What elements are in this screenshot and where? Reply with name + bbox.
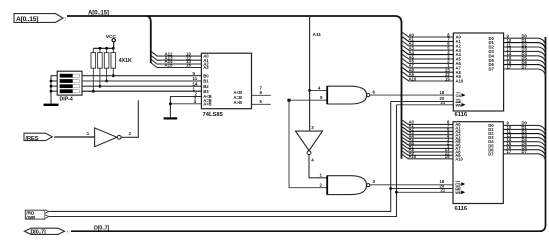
wire A11 from bus [309, 17, 311, 131]
wire D1 U4 to bus [504, 43, 546, 50]
svg-text:6116: 6116 [455, 112, 468, 118]
wire A1 bus to U5 [402, 124, 453, 128]
svg-text::: : [64, 17, 66, 23]
label D5 (U5) [522, 141, 528, 146]
label D0 (U4) [522, 34, 528, 39]
wire bus branch to comparator (A12-A15) [147, 16, 151, 63]
wire DIP common [51, 76, 57, 104]
svg-text:D7: D7 [488, 151, 494, 156]
resistor R3 (pack 4X1K) [104, 48, 109, 81]
wire /RD to U5 OE [391, 188, 453, 190]
label A9 (U5) [409, 151, 415, 156]
label A4 (U4) [409, 50, 415, 55]
label A[0..15] on bus [88, 10, 109, 17]
wire U3B output to U2B pin1 [309, 155, 327, 178]
pin number 13 [186, 59, 191, 64]
svg-text:5: 5 [260, 99, 263, 104]
wire U2A pin5 input [289, 99, 327, 101]
svg-text:3: 3 [373, 179, 376, 184]
label A12 [165, 51, 174, 56]
label D1 (U4) [522, 38, 528, 43]
svg-text:2: 2 [129, 131, 132, 136]
label D3 (U4) [522, 47, 528, 52]
wire B0 net (DIP to U1 pin 9) [82, 75, 201, 77]
pin number 14 (U4) [507, 51, 512, 56]
wire D5 U5 to bus [503, 146, 545, 153]
switch S1 element 3 [60, 84, 80, 88]
pin number 11 [193, 76, 198, 81]
pin number 20 (U4 OE) [440, 96, 445, 101]
label A7 (U5) [409, 144, 415, 149]
pin number 9 (U5) [507, 121, 510, 126]
pin number 4 (U3B out) [311, 158, 314, 163]
label A15 [165, 63, 174, 68]
svg-text:15: 15 [186, 63, 191, 68]
pin number 5 [260, 99, 263, 104]
svg-text:CS: CS [456, 93, 462, 98]
switch S1 element 1 [60, 74, 80, 78]
label D0 (U5) [522, 121, 528, 126]
junction dot DIP 3 [50, 85, 53, 88]
switch S1 DIP-4 body [57, 71, 82, 95]
wire D1 U5 to bus [503, 129, 545, 136]
label D2 (U5) [522, 129, 528, 134]
pin number 17 (U4) [507, 64, 512, 69]
power VCC symbol [106, 34, 117, 48]
svg-text:A10: A10 [455, 156, 463, 161]
wire D6 U5 to bus [503, 150, 545, 157]
label A1 (U5) [409, 123, 415, 128]
pin number 21 (U5 WE) [441, 188, 446, 193]
wire U1 pin5 A>B output stub [252, 103, 271, 105]
wire U2B pin2 input [289, 187, 327, 189]
svg-text:17: 17 [507, 64, 512, 69]
pin number 10 (U4) [507, 38, 512, 43]
pin number 20 (U5 OE) [440, 184, 445, 189]
label A5 (U5) [409, 137, 415, 142]
pin number 9 [193, 71, 196, 76]
label D4 (U4) [522, 51, 528, 56]
label A0 (U4) [409, 32, 415, 37]
label A6 (U5) [409, 140, 415, 145]
wire A7 bus to U4 [402, 63, 453, 68]
port D[0..7] (bidirectional flag) [25, 228, 69, 236]
port /RES (input flag) [24, 133, 56, 142]
pin number 13 (U4) [507, 47, 512, 52]
wire A12 to U1 pin A0 [151, 52, 201, 57]
pin number 17 (U5) [507, 149, 512, 154]
pin number 1 [193, 86, 196, 91]
svg-text:1: 1 [320, 173, 323, 178]
pin number 2 (U3 out) [129, 131, 132, 136]
pin number 13 (U5) [507, 133, 512, 138]
wire bus D[0..7] horizontal [71, 37, 546, 231]
pin number 3 (U4) [447, 54, 450, 59]
wire A5 bus to U5 [402, 137, 453, 141]
wire A15 to U1 pin A3 [151, 63, 201, 68]
junction dot A=B net [287, 99, 290, 102]
pin number 16 (U4) [507, 60, 512, 65]
svg-text:4X1K: 4X1K [119, 58, 132, 64]
pin number 4 [318, 85, 321, 90]
label D6 (U4) [522, 60, 528, 65]
wire B1 net (DIP to U1 pin 11) [82, 80, 201, 82]
svg-text:6116: 6116 [455, 206, 468, 212]
junction dot R2 bottom [99, 85, 102, 88]
svg-text:D[0..7]: D[0..7] [94, 226, 109, 232]
pin number 8 (U4) [447, 32, 450, 37]
wire A1 bus to U4 [402, 37, 453, 42]
svg-text:DIP-4: DIP-4 [60, 96, 73, 102]
wire B2 net (DIP to U1 pin 14) [82, 85, 201, 87]
wire A9 bus to U5 [402, 151, 453, 155]
pin number 18 (U4 CS) [440, 90, 445, 95]
pin number 3 (U3B in) [311, 125, 314, 130]
pin number 15 [186, 63, 191, 68]
svg-text:D7: D7 [522, 64, 528, 69]
memory U4 6116 body [453, 33, 503, 111]
pin number 10 (U5) [507, 125, 512, 130]
label D3 (U5) [522, 133, 528, 138]
pin number 23 (U4) [445, 68, 450, 73]
resistor R4 (pack 4X1K) [111, 48, 116, 75]
svg-text:1: 1 [87, 131, 90, 136]
memory U5 6116 body [453, 122, 503, 204]
pin number 9 (U4) [507, 34, 510, 39]
wire U1 pin6 A=B output stub [252, 94, 271, 96]
pin number 15 (U4) [507, 56, 512, 61]
wire A13 to U1 pin A1 [151, 56, 201, 61]
pin number 23 (U5) [445, 147, 450, 152]
svg-text:D7: D7 [489, 67, 495, 72]
pin number 1 [320, 173, 323, 178]
pin number 2 [195, 92, 198, 97]
wire /RD net [49, 102, 390, 212]
pin number 10 [186, 51, 191, 56]
svg-text:2: 2 [320, 183, 323, 188]
wire A4 bus to U4 [402, 50, 453, 55]
pin number 16 (U5) [507, 145, 512, 150]
inverter U3B (A11) [296, 131, 323, 155]
svg-text:74LS85: 74LS85 [203, 112, 224, 118]
label DIP-4 [60, 96, 73, 102]
wire resistor-pack top rail [93, 47, 113, 49]
svg-text:A3: A3 [203, 65, 209, 70]
label D5 (U4) [522, 56, 528, 61]
pin number 19 (U4) [445, 76, 450, 81]
pin number 7 (U5) [447, 123, 450, 128]
pin number 2 [320, 183, 323, 188]
label A13 [165, 55, 174, 60]
wire A9 bus to U4 [402, 72, 453, 77]
label A3 (U4) [409, 46, 415, 51]
wire A4 bus to U5 [402, 134, 453, 138]
wire /WR to U4 WE [397, 104, 454, 106]
pin number 22 (U4) [445, 72, 450, 77]
label 74LS85 [203, 112, 224, 118]
pin number 5 [320, 95, 323, 100]
junction dot R3 bottom [105, 80, 108, 83]
svg-text:/WR: /WR [26, 215, 36, 220]
wire D0 U4 to bus [504, 38, 546, 45]
svg-text:VCC: VCC [106, 34, 117, 40]
label A8 (U5) [409, 147, 415, 152]
svg-text:A11: A11 [313, 32, 322, 38]
wire A6 bus to U4 [402, 59, 453, 64]
label A3 (U5) [409, 130, 415, 135]
junction dot rail R3 [105, 47, 108, 50]
pin number 15 (U5) [507, 141, 512, 146]
svg-text:A10: A10 [456, 79, 464, 84]
wire U2A pin4 input [310, 89, 328, 91]
label A10 (U5) [409, 154, 417, 159]
wire /WR net [49, 105, 396, 217]
wire A8 bus to U4 [402, 68, 453, 73]
svg-text:21: 21 [441, 188, 446, 193]
pin number 3 (U5) [447, 137, 450, 142]
wire A2 bus to U4 [402, 41, 453, 46]
wire D3 U4 to bus [504, 51, 546, 58]
switch S1 element 2 [60, 79, 80, 83]
junction dot DIP 2 [50, 80, 53, 83]
op-amp U1 74LS85 comparator body [201, 53, 251, 108]
pin number 3 [194, 96, 197, 101]
label D7 (U5) [522, 149, 528, 154]
wire D6 U4 to bus [504, 65, 546, 72]
label A10 (U4) [409, 76, 417, 81]
wire A=B net vertical [288, 100, 290, 188]
wire A3 bus to U4 [402, 46, 453, 51]
junction dot R1 bottom [92, 90, 95, 93]
label A4 (U5) [409, 133, 415, 138]
svg-text:A[0..15]: A[0..15] [88, 10, 109, 17]
label A2 (U4) [409, 41, 415, 46]
wire /RES to U3 input [55, 136, 95, 138]
wire D2 U4 to bus [504, 47, 546, 54]
junction dot rail R2 [99, 47, 102, 50]
pin number 2 (U4) [447, 59, 450, 64]
pin number 6 (U4) [447, 41, 450, 46]
switch S1 element 4 [60, 89, 80, 93]
wire bus A[0..15] horizontal [67, 16, 402, 23]
junction dot cascade [169, 102, 172, 105]
svg-text:D7: D7 [522, 149, 528, 154]
junction dot /WR lower [395, 191, 398, 194]
junction dot A11/gate [308, 89, 311, 92]
junction dot rail R4 [112, 47, 115, 50]
nand-gate U2A [327, 86, 370, 104]
svg-text:4: 4 [311, 158, 314, 163]
wire A7 bus to U5 [402, 144, 453, 148]
svg-text:A>B: A>B [234, 100, 243, 105]
label A7 (U4) [409, 63, 415, 68]
svg-text:B0: B0 [203, 73, 209, 78]
pin number 22 (U5) [445, 151, 450, 156]
wire D7 U5 to bus [503, 154, 545, 161]
svg-text::: : [54, 136, 56, 141]
wire D2 U5 to bus [503, 134, 545, 141]
label D4 (U5) [522, 137, 528, 142]
svg-text:19: 19 [445, 76, 450, 81]
label A2 (U5) [409, 127, 415, 132]
wire A6 bus to U5 [402, 141, 453, 145]
svg-text:D[0..7]: D[0..7] [31, 230, 46, 236]
svg-text:WE: WE [455, 190, 462, 195]
wire U1 pin2 A<B input [170, 97, 201, 118]
wire bus A vertical (to RAMs) [401, 22, 403, 159]
pin number 6 (U5) [447, 127, 450, 132]
inverter U3 (reset) [95, 128, 122, 147]
pin number 1 (U3 in) [87, 131, 90, 136]
svg-text:19: 19 [445, 154, 450, 159]
wire A10 bus to U5 [402, 155, 453, 159]
pin number 14 (U5) [507, 137, 512, 142]
pin number 1 (U5) [447, 144, 450, 149]
pin number 14 [193, 81, 198, 86]
label 6116 (U5) [455, 206, 468, 212]
pin number 6 [373, 90, 376, 95]
wire U1 pin4 A>B input [170, 103, 201, 105]
junction dot R4 bottom [112, 74, 115, 77]
pin number 18 (U5 CS) [440, 179, 445, 184]
svg-text:6: 6 [260, 90, 263, 95]
svg-text:/RES: /RES [26, 136, 39, 142]
wire D0 U5 to bus [503, 125, 545, 131]
pin number 11 (U5) [507, 129, 512, 134]
pin number 19 (U5) [445, 154, 450, 159]
label A1 (U4) [409, 37, 415, 42]
pin number 8 (U5) [447, 120, 450, 125]
wire D4 U4 to bus [504, 56, 546, 63]
pin number 3 [373, 179, 376, 184]
svg-text:A>B: A>B [203, 101, 212, 106]
svg-text:3: 3 [311, 125, 314, 130]
wire /RD to U4 OE [391, 101, 454, 103]
pin number 11 (U4) [507, 42, 512, 47]
svg-text:6: 6 [373, 90, 376, 95]
wire A2 bus to U5 [402, 127, 453, 131]
label A11 [313, 32, 322, 38]
label A14 [165, 59, 174, 64]
junction dot DIP 4 [50, 90, 53, 93]
label D[0..7] on bus [94, 226, 109, 232]
resistor R1 (pack 4X1K) [91, 48, 96, 91]
label A5 (U4) [409, 54, 415, 59]
port /RD /WR (input flags) [25, 210, 49, 220]
wire D4 U5 to bus [503, 142, 545, 149]
svg-text:5: 5 [320, 95, 323, 100]
wire /WR to U5 WE [397, 191, 454, 193]
junction dot /RD lower [389, 187, 392, 190]
label D7 (U4) [522, 64, 528, 69]
pin number 2 (U5) [447, 140, 450, 145]
label D1 (U5) [522, 125, 528, 130]
pin number 21 (U4 WE) [441, 100, 446, 105]
pin number 7 [260, 85, 263, 90]
pin number 1 (U4) [447, 63, 450, 68]
pin number 4 (U4) [447, 50, 450, 55]
svg-text:4: 4 [318, 85, 321, 90]
svg-text:WE: WE [456, 103, 463, 108]
svg-text:18: 18 [440, 90, 445, 95]
wire A8 bus to U5 [402, 148, 453, 152]
pin number 4 (U5) [447, 133, 450, 138]
wire A3 bus to U5 [402, 131, 453, 135]
wire A10 bus to U4 [402, 76, 453, 81]
pin number 4 [194, 99, 197, 104]
label D6 (U5) [522, 145, 528, 150]
svg-text:A15: A15 [165, 63, 174, 68]
pin number 12 [186, 55, 191, 60]
svg-text:A10: A10 [409, 76, 417, 81]
svg-text:21: 21 [441, 100, 446, 105]
wire D3 U5 to bus [503, 138, 545, 145]
wire A0 bus to U4 [402, 32, 453, 37]
wire A5 bus to U4 [402, 54, 453, 59]
ground (U1 cascade) [164, 117, 178, 119]
wire A0 bus to U5 [402, 120, 453, 124]
pin number 5 (U4) [447, 46, 450, 51]
label D2 (U4) [522, 42, 528, 47]
label 6116 (U4) [455, 112, 468, 118]
wire A14 to U1 pin A2 [151, 60, 201, 65]
pin number 5 (U5) [447, 130, 450, 135]
label A6 (U4) [409, 59, 415, 64]
label A9 (U4) [409, 72, 415, 77]
label A0 (U5) [409, 120, 415, 125]
wire D5 U4 to bus [504, 60, 546, 66]
svg-text:A10: A10 [409, 154, 417, 159]
svg-text::: : [67, 230, 69, 235]
wire B3 net (DIP to U1 pin 1) [82, 90, 201, 92]
port A[0..15] (input flag) [14, 14, 66, 24]
wire U3 output [121, 100, 138, 137]
pin number 6 [260, 90, 263, 95]
label A8 (U4) [409, 68, 415, 73]
nand-gate U2B [327, 176, 370, 195]
wire U2B output to U5 CS [370, 184, 453, 186]
wire D7 U4 to bus [504, 69, 546, 76]
svg-text:A[0..15]: A[0..15] [16, 16, 38, 23]
resistor R2 (pack 4X1K) [98, 48, 103, 86]
pin number 7 (U4) [447, 37, 450, 42]
label 4X1K [119, 58, 132, 64]
ground (DIP switch) [44, 104, 59, 106]
svg-text:17: 17 [507, 149, 512, 154]
wire U2A output to U4 CS [370, 94, 454, 96]
